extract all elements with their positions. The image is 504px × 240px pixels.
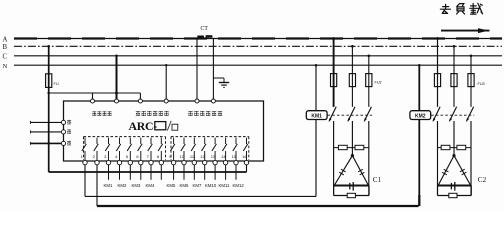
dashed relay group 1 (84, 137, 166, 160)
CT label (201, 26, 209, 32)
label ARC model (129, 119, 178, 133)
contact KM2-3 (466, 107, 473, 122)
contactor KM2 linkage (dashed) (431, 114, 474, 116)
svg-text:9: 9 (169, 154, 172, 159)
bus N (14, 64, 502, 66)
svg-text:KM12: KM12 (233, 183, 245, 188)
label KM1..KM4 (104, 183, 155, 188)
wire: terminal 5 stub (129, 165, 131, 180)
relay contact 6 (138, 138, 143, 161)
fuse branch1 f3 (366, 74, 372, 87)
wire: terminal 6 stub (140, 165, 142, 180)
discharge resistor branch2 bottom (449, 193, 457, 197)
fuse branch2 f2 (451, 74, 457, 87)
wire: branch2 phase A drop (436, 37, 439, 107)
svg-text:13: 13 (211, 154, 216, 159)
svg-text:ARC-: ARC- (129, 119, 158, 133)
svg-text:5: 5 (126, 154, 129, 159)
svg-text:KM2: KM2 (118, 183, 127, 188)
wire: branch2 bottom loop (438, 186, 472, 196)
capacitor C2 base element (451, 182, 454, 191)
wire: branch1 phase C drop (368, 55, 371, 107)
capacitor bank C2 delta (438, 154, 472, 186)
wire: neutral drop (165, 64, 167, 100)
svg-text:KM4: KM4 (146, 183, 155, 188)
relay contact 3 (105, 138, 110, 161)
current transformer CT (197, 35, 212, 38)
wire: CT secondary lead 2 (212, 39, 214, 100)
wire: ground branch (213, 78, 224, 82)
svg-text:FU3: FU3 (478, 82, 485, 86)
svg-text:12: 12 (200, 154, 205, 159)
contactor coil wire branch2 (418, 64, 421, 196)
wire: branch2 phase C drop (470, 55, 473, 107)
relay contact 1 (82, 138, 87, 161)
contact KM1-1 (329, 107, 336, 122)
contactor coil wire branch1 (315, 64, 318, 196)
wire: supply feed line (49, 92, 141, 94)
discharge resistors branch2 (438, 145, 472, 149)
dashed relay group 2 (171, 137, 249, 160)
relay contact 4 (116, 138, 121, 161)
discharge resistor branch1 bottom (347, 193, 355, 197)
relay contact 15 (233, 138, 238, 161)
relay contact 5 (127, 138, 132, 161)
wire: terminal 14 stub (225, 165, 227, 180)
capacitor marks C2 sides (442, 169, 466, 175)
contactor KM1 linkage (dashed) (328, 114, 373, 116)
svg-text:KM2: KM2 (415, 114, 426, 120)
relay contact 9 (170, 138, 175, 161)
bus A label (3, 36, 8, 43)
wire: phase C drop (115, 55, 118, 100)
wire: phase B drop to controller supply (47, 45, 50, 172)
svg-text:4: 4 (115, 154, 118, 159)
wire: terminal 12 stub (204, 165, 206, 180)
contact KM1-3 (364, 107, 371, 122)
bus C label (3, 54, 8, 61)
svg-text:KM3: KM3 (132, 183, 141, 188)
svg-text:N: N (3, 63, 8, 70)
wire: branch1 left leg (333, 121, 335, 196)
svg-text:CT: CT (201, 26, 209, 32)
relay contact 7 (148, 138, 153, 161)
bus A (14, 38, 502, 40)
svg-text:A: A (3, 36, 8, 43)
wire: terminal 10 stub (183, 165, 185, 180)
wire: branch2 left leg (437, 121, 439, 196)
wire: branch1 phase A drop (332, 37, 335, 107)
label 电压信号输入 (voltage signal input) (136, 111, 169, 116)
discharge resistors branch1 (334, 145, 369, 149)
svg-text:KM1: KM1 (104, 183, 113, 188)
junction: fuse drop / input line c (47, 142, 50, 145)
wire: terminal 1 drop (84, 165, 86, 197)
bus C (14, 55, 502, 57)
svg-text:16: 16 (242, 154, 247, 159)
wire: feed stub t-b (139, 93, 141, 100)
wire: branch2 phase B drop (453, 45, 456, 107)
svg-text:C2: C2 (478, 176, 487, 184)
contact KM2-1 (433, 107, 440, 122)
junction: fuse drop / feed line (47, 92, 50, 95)
wire: branch2 mid leg (453, 121, 455, 156)
relay contact 8 (158, 138, 163, 161)
wire: coil return rail 1 (85, 195, 316, 197)
svg-text:14: 14 (221, 154, 226, 159)
left terminal tiny labels (67, 120, 71, 146)
controller left terminals (61, 120, 65, 145)
relay contact 14 (222, 138, 227, 161)
svg-text:15: 15 (232, 154, 237, 159)
label 工作电源 (working power) (92, 111, 111, 116)
bus B label (3, 44, 8, 51)
terminal number labels (81, 154, 248, 159)
ground (219, 83, 229, 88)
controller box ARC outline (64, 101, 264, 161)
junction: feed line / phase C drop (115, 92, 118, 95)
fuse branch2 f1 (434, 74, 440, 87)
svg-text:KM7: KM7 (193, 183, 202, 188)
svg-text:B: B (3, 44, 8, 51)
wire: CT secondary lead 1 (196, 39, 198, 100)
contactor KM2 coil box (410, 111, 431, 120)
wire: terminal 7 stub (150, 165, 152, 180)
fuse branch1 f1 (331, 74, 337, 87)
svg-text:3: 3 (104, 154, 107, 159)
relay contact 2 (94, 138, 99, 161)
wire: supply rail under terminals (49, 171, 247, 173)
wire: left voltage input b (31, 130, 64, 133)
wire: branch1 right leg (368, 121, 370, 196)
wire: terminal 8 stub (160, 165, 162, 180)
contactor KM1 coil box (306, 111, 327, 120)
label KM5..KM12 (167, 183, 245, 188)
wire: terminal 4 stub (119, 165, 121, 180)
svg-text:KM1: KM1 (311, 114, 322, 120)
fuse FU1 (46, 74, 52, 88)
wire: coil return rail 2 (thick) (97, 205, 419, 207)
wire: terminal 9 stub (173, 165, 175, 180)
svg-text:FU: FU (54, 82, 59, 86)
wire: terminal 15 stub (235, 165, 237, 180)
capacitor bank label C1 (373, 176, 382, 184)
fuse branch1 f2 (349, 74, 355, 87)
capacitor marks C1 sides (339, 169, 364, 175)
svg-text:2: 2 (93, 154, 96, 159)
wire: left voltage input a (31, 121, 64, 124)
wire: left voltage input c (31, 142, 64, 145)
contact KM2-2 (449, 107, 456, 122)
svg-text:7: 7 (147, 154, 150, 159)
relay contact 11 (191, 138, 196, 161)
relay contact 16 (243, 138, 248, 161)
relay contact 10 (181, 138, 186, 161)
wire: terminal 2 drop (96, 165, 98, 206)
label 电流信号输入 (current signal input) (188, 111, 222, 116)
controller top terminals (91, 99, 216, 103)
relay contact 12 (202, 138, 207, 161)
svg-text:C1: C1 (373, 176, 382, 184)
load arrow (441, 28, 490, 33)
wire: branch1 bottom loop (334, 186, 370, 196)
wire: branch2 right leg (470, 121, 472, 196)
label 去负载 (to load) (440, 3, 482, 14)
wire: feed stub t-a (92, 93, 94, 100)
fuse branch2 f3 (468, 74, 474, 87)
fuse label FU3 (478, 82, 485, 86)
wire: branch1 mid leg (351, 121, 353, 156)
svg-text:KM10: KM10 (205, 183, 217, 188)
svg-text:6: 6 (136, 154, 139, 159)
wire: terminal 13 stub (214, 165, 216, 180)
bus N label (3, 63, 8, 70)
wire: terminal 11 stub (193, 165, 195, 180)
controller bottom terminals (83, 160, 249, 164)
svg-text:KM11: KM11 (219, 183, 231, 188)
capacitor bank C1 delta (334, 154, 370, 186)
bus B (14, 45, 502, 47)
capacitor bank label C2 (478, 176, 487, 184)
wire: branch1 phase B drop (351, 45, 354, 107)
contact KM1-2 (348, 107, 355, 122)
fuse label FU2 (375, 81, 382, 85)
relay contact 13 (212, 138, 217, 161)
svg-text:8: 8 (157, 154, 160, 159)
wire: terminal 3 stub (108, 165, 110, 180)
svg-text:FU2: FU2 (375, 81, 382, 85)
svg-text:KM5: KM5 (167, 183, 176, 188)
svg-text:10: 10 (180, 154, 185, 159)
wire: KM2 coil thick drop (418, 195, 420, 206)
svg-text:KM6: KM6 (180, 183, 189, 188)
wire: terminal 16 drop to supply rail (246, 165, 248, 172)
capacitor C1 base element (350, 182, 353, 191)
svg-text:C: C (3, 54, 8, 61)
fuse FU1 label (54, 82, 59, 86)
